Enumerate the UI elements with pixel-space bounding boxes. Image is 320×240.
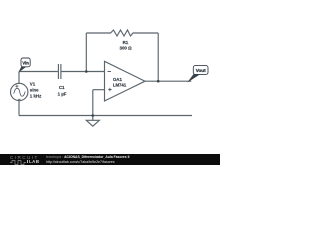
svg-text:300 Ω: 300 Ω	[120, 46, 133, 51]
svg-text:C1: C1	[59, 85, 65, 90]
svg-text:1 µF: 1 µF	[58, 91, 67, 96]
svg-text:Vin: Vin	[22, 60, 29, 65]
svg-text:sine: sine	[30, 87, 39, 92]
svg-text:LM741: LM741	[113, 82, 127, 87]
svg-text:OA1: OA1	[113, 77, 123, 82]
svg-text:1 kHz: 1 kHz	[30, 93, 42, 98]
svg-text:R1: R1	[123, 40, 129, 45]
svg-text:V1: V1	[30, 82, 36, 87]
svg-text:Vout: Vout	[196, 68, 206, 73]
